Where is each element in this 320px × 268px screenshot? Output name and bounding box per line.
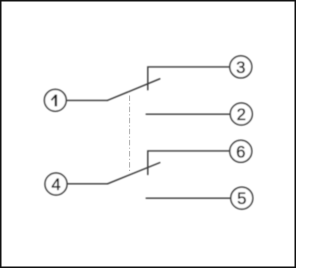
terminal 4 <box>45 173 67 195</box>
terminal 2 <box>230 103 252 125</box>
wire: terminal 2 <box>146 113 230 115</box>
svg-text:2: 2 <box>237 105 246 124</box>
wire: terminal 1 to switch pivot <box>66 99 107 101</box>
contact bar and wire to terminal 3 <box>148 67 230 90</box>
terminal 6 <box>230 140 252 162</box>
svg-text:3: 3 <box>236 58 245 77</box>
svg-text:6: 6 <box>236 142 245 161</box>
wire: terminal 5 <box>146 197 231 199</box>
terminal 3 <box>230 56 252 78</box>
svg-text:5: 5 <box>237 189 246 208</box>
wire: terminal 4 to switch pivot <box>67 183 108 185</box>
terminal 1 <box>44 89 66 111</box>
svg-text:4: 4 <box>51 175 60 194</box>
switch blade upper (pole 1) <box>108 79 160 101</box>
switch blade lower (pole 2) <box>108 163 160 184</box>
mechanical link (dash-dot) <box>129 96 131 172</box>
contact bar and wire to terminal 6 <box>148 151 230 175</box>
terminal 5 <box>231 187 253 209</box>
